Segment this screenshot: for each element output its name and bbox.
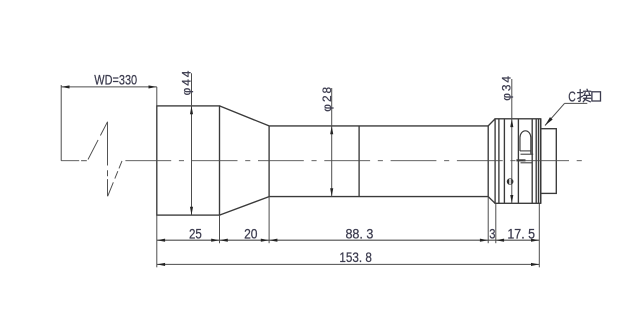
- svg-text:25: 25: [189, 226, 202, 242]
- svg-text:3: 3: [489, 226, 495, 242]
- svg-text:153. 8: 153. 8: [339, 250, 372, 266]
- svg-text:88. 3: 88. 3: [345, 226, 373, 242]
- svg-text:17. 5: 17. 5: [507, 226, 535, 242]
- svg-text:φ34: φ34: [499, 74, 513, 101]
- svg-text:C: C: [568, 89, 576, 105]
- svg-text:φ44: φ44: [180, 69, 194, 96]
- svg-text:20: 20: [244, 226, 257, 242]
- svg-text:φ28: φ28: [320, 85, 334, 112]
- svg-text:WD=330: WD=330: [94, 73, 137, 89]
